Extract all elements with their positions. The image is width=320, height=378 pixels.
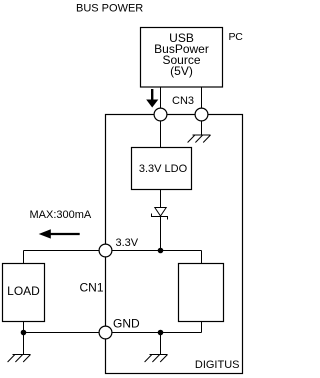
block PC: USB BusPower Source (5V) xyxy=(141,28,223,88)
svg-text:3.3V LDO: 3.3V LDO xyxy=(139,163,188,175)
svg-text:CN3: CN3 xyxy=(172,95,194,107)
svg-text:(5V): (5V) xyxy=(170,64,193,78)
node CN1 GND pin xyxy=(99,326,112,339)
regulator U1 3.3V LDO xyxy=(132,148,192,190)
svg-text:3.3V: 3.3V xyxy=(116,237,139,249)
svg-text:CN1: CN1 xyxy=(79,281,103,295)
node CN3 pin 2 xyxy=(195,108,208,121)
svg-text:LOAD: LOAD xyxy=(7,284,40,298)
current arrow MAX:300mA (left) xyxy=(39,229,80,238)
wire USB GND pin to CN3 pin 2 xyxy=(201,87,203,115)
block internal circuit xyxy=(179,264,224,322)
block LOAD xyxy=(3,264,45,322)
junction GND net xyxy=(158,330,164,336)
svg-text:MAX:300mA: MAX:300mA xyxy=(30,209,92,221)
svg-text:GND: GND xyxy=(113,317,140,331)
wire CN3 pin 2 to ground xyxy=(201,115,203,136)
svg-text:DIGITUS: DIGITUS xyxy=(195,359,240,371)
svg-text:PC: PC xyxy=(229,31,244,43)
svg-text:BUS POWER: BUS POWER xyxy=(76,3,143,15)
node CN1 3.3V pin xyxy=(99,244,112,257)
current arrow (5V input, down) xyxy=(146,89,158,108)
zener diode D1 xyxy=(152,208,168,220)
wire 3.3V net down to internal block xyxy=(201,251,203,264)
wire 3.3V net down to LOAD xyxy=(23,251,25,264)
wire USB 5V pin to CN3 pin 1 xyxy=(160,87,162,115)
wire zener D1 to 3.3V net xyxy=(160,217,162,251)
junction LOAD / GND net xyxy=(21,330,27,336)
wire CN3 pin 1 to LDO input xyxy=(160,115,162,148)
ground (USB side) xyxy=(188,135,211,143)
junction on 3.3V net xyxy=(158,248,164,254)
net GND horizontal wire xyxy=(24,332,202,334)
node CN3 pin 1 xyxy=(154,108,167,121)
ground (module) xyxy=(145,333,168,363)
wire LOAD to GND net xyxy=(23,322,25,333)
wire LDO output to zener D1 xyxy=(160,190,162,208)
net 3.3V horizontal wire xyxy=(24,250,202,252)
ground (LOAD side) xyxy=(8,333,31,363)
wire internal block to GND net xyxy=(201,322,203,333)
module box DIGITUS (outer) xyxy=(106,115,243,374)
